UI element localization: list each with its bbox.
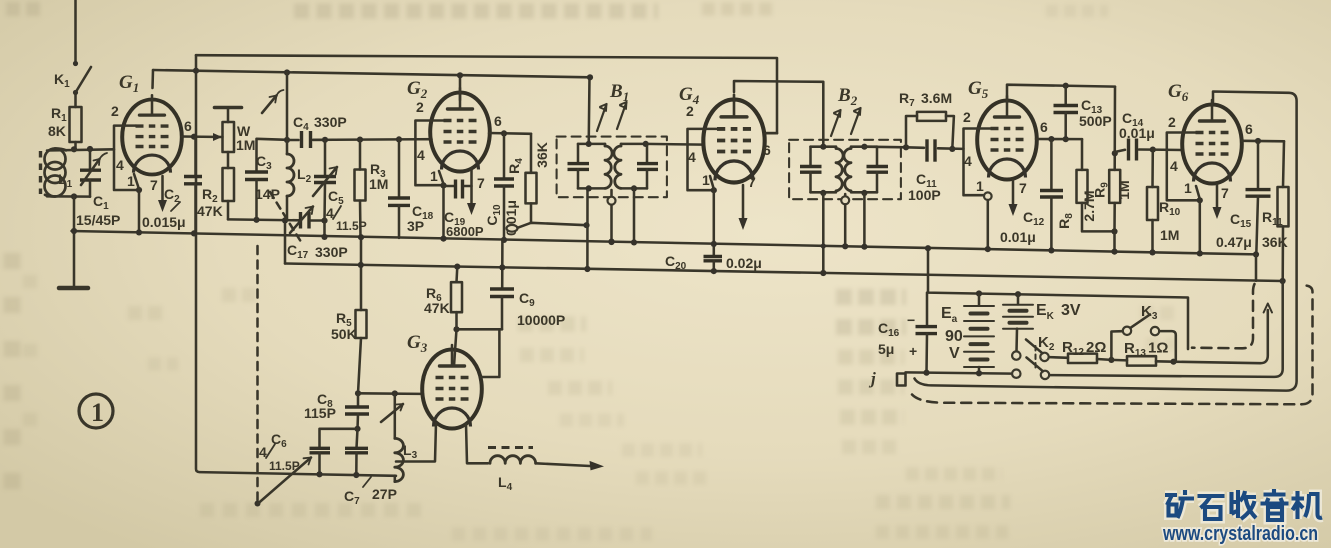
capacitor C8 — [304, 391, 369, 432]
capacitor C2 — [142, 137, 202, 236]
svg-text:www.crystalradio.cn: www.crystalradio.cn — [1162, 523, 1318, 545]
capacitor C19 — [444, 180, 484, 240]
svg-text:6800P: 6800P — [446, 224, 484, 239]
G1 pin 4 bracket — [111, 103, 139, 190]
capacitor C16 — [878, 293, 937, 373]
node L1 top — [47, 146, 114, 152]
B1 terminal to bus left — [608, 190, 616, 245]
bus junction dots — [608, 239, 614, 245]
transformer B1 box — [557, 81, 667, 197]
potentiometer W — [215, 108, 256, 154]
G4 pin 7 arrow — [739, 174, 757, 230]
tube G5 — [977, 96, 1037, 180]
G6 pin 7 arrow — [1213, 185, 1230, 219]
svg-text:115P: 115P — [304, 405, 336, 421]
top bus — [196, 55, 777, 133]
tube G1 — [122, 95, 182, 174]
capacitor C14 — [1115, 110, 1155, 161]
ground drop wire — [71, 197, 77, 287]
battery plus lead arrow — [1174, 304, 1273, 364]
svg-text:15/45P: 15/45P — [76, 212, 120, 228]
capacitor C6 — [258, 429, 358, 504]
G4 anode wire — [734, 81, 823, 147]
svg-text:50K: 50K — [331, 326, 357, 342]
G2 pin bracket — [415, 99, 444, 185]
R4 bottom wire — [507, 222, 590, 232]
G6 pin 1 node — [1196, 186, 1203, 257]
G2 anode lead — [457, 72, 463, 100]
B2 primary drop to AVC — [820, 193, 826, 276]
svg-text:1: 1 — [91, 398, 104, 427]
inductor L1 — [41, 149, 73, 197]
B1 secondary out wire — [646, 143, 704, 146]
B1 secondary tank — [614, 141, 658, 192]
G3 heater out wire — [466, 424, 488, 463]
B1 drop to AVC — [584, 188, 590, 272]
G5 pin 1 node — [984, 192, 992, 252]
tube G4 — [703, 95, 764, 183]
G1 pin 7 arrow — [150, 176, 167, 212]
B2 terminal to bus — [841, 194, 849, 249]
svg-text:11.5P: 11.5P — [336, 219, 367, 233]
watermark site name — [1165, 489, 1322, 520]
svg-text:330P: 330P — [315, 244, 348, 260]
svg-text:47K: 47K — [197, 203, 223, 219]
capacitor C3 — [245, 139, 287, 220]
svg-text:1M: 1M — [1160, 227, 1179, 243]
svg-text:6: 6 — [1040, 119, 1048, 135]
switch K1 — [54, 61, 91, 95]
svg-text:90: 90 — [945, 328, 963, 345]
filament return wire — [1049, 281, 1282, 377]
svg-text:7: 7 — [150, 177, 158, 193]
svg-text:1M: 1M — [1116, 180, 1132, 199]
svg-text:0.01μ: 0.01μ — [1000, 229, 1036, 245]
G6 pin bracket — [1167, 114, 1200, 200]
earphone cord dashed inner — [1192, 284, 1255, 348]
resistor R6 — [424, 264, 462, 330]
resistor R12 — [1049, 339, 1115, 363]
G3 grid 2 out — [481, 329, 499, 377]
ground — [59, 286, 88, 291]
inductor L4 — [488, 448, 536, 494]
resistor R9 — [1092, 87, 1133, 255]
filament wire — [906, 370, 1013, 377]
svg-text:2: 2 — [416, 99, 424, 115]
G2 pin 6 wire — [489, 113, 531, 136]
svg-text:6: 6 — [763, 142, 771, 158]
svg-text:14P: 14P — [255, 186, 280, 202]
resistor R1 — [48, 95, 82, 149]
svg-text:1M: 1M — [236, 137, 255, 153]
G5 pin 6 wire — [1036, 119, 1082, 142]
svg-text:2: 2 — [963, 109, 971, 125]
battery EK 3V — [1003, 294, 1081, 351]
capacitor C15 — [1216, 141, 1271, 258]
capacitor C7 — [344, 429, 397, 507]
svg-text:1: 1 — [430, 168, 438, 184]
svg-text:−: − — [907, 312, 915, 328]
svg-text:5μ: 5μ — [878, 341, 894, 357]
svg-text:100P: 100P — [908, 187, 941, 203]
svg-text:27P: 27P — [372, 486, 397, 502]
G5 pin 7 arrow — [1009, 180, 1028, 216]
tube G2 — [430, 88, 490, 172]
resistor R10 — [1147, 150, 1181, 256]
G3 cathode tap wire — [396, 423, 436, 462]
grid return wire — [228, 217, 299, 224]
capacitor C13 — [1054, 86, 1112, 143]
L1 bottom wire — [47, 193, 90, 199]
svg-text:3P: 3P — [407, 218, 424, 234]
resistor R11 — [1262, 141, 1289, 284]
svg-text:0.015μ: 0.015μ — [142, 214, 186, 230]
svg-text:1: 1 — [702, 172, 710, 188]
svg-text:0.02μ: 0.02μ — [726, 255, 762, 271]
circled figure number 1 — [79, 394, 113, 428]
C17 drop to bus — [321, 221, 327, 240]
earphone cord dashed outer — [912, 286, 1313, 405]
B2 primary tank — [800, 144, 843, 196]
svg-text:4: 4 — [116, 157, 124, 173]
svg-text:1M: 1M — [369, 176, 388, 192]
svg-text:1: 1 — [976, 178, 984, 194]
svg-text:3V: 3V — [1061, 302, 1081, 319]
capacitor C18 — [388, 139, 434, 238]
B2 trimmer arrows — [831, 108, 861, 136]
G2 pin 7 arrow — [467, 168, 485, 215]
svg-text:7: 7 — [477, 175, 485, 191]
resistor R8 — [1056, 139, 1118, 234]
svg-text:4: 4 — [964, 153, 972, 169]
svg-text:0.47μ: 0.47μ — [1216, 234, 1252, 250]
main ground bus — [72, 231, 1257, 254]
switch K2 — [1012, 334, 1055, 379]
svg-text:+: + — [909, 343, 917, 359]
svg-text:0.01μ: 0.01μ — [1119, 125, 1155, 141]
svg-text:500P: 500P — [1079, 113, 1112, 129]
tube G3 — [422, 345, 482, 429]
switch K3 bypass — [1111, 303, 1175, 362]
svg-text:7: 7 — [1019, 180, 1027, 196]
inductor L3 — [381, 394, 418, 482]
svg-text:4: 4 — [688, 149, 696, 165]
transformer B2 box — [789, 85, 901, 199]
svg-text:4: 4 — [1170, 158, 1178, 174]
B1 primary tank — [568, 141, 613, 192]
svg-text:10000P: 10000P — [517, 312, 565, 328]
svg-text:2: 2 — [1168, 114, 1176, 130]
G4 pin 6 wire — [763, 133, 777, 158]
B1 secondary drop to bus — [631, 188, 637, 245]
antenna wire — [74, 0, 77, 61]
svg-text:6: 6 — [184, 118, 192, 134]
G1 pin 6 wire — [182, 118, 223, 141]
capacitor C1 — [76, 146, 120, 228]
capacitor C10 — [484, 133, 519, 243]
svg-text:36K: 36K — [1262, 234, 1288, 250]
svg-text:V: V — [949, 345, 960, 362]
B2 secondary tank — [844, 144, 888, 196]
gang dashed link — [255, 90, 304, 507]
left rail wire — [196, 55, 396, 476]
G6 grid wire — [1150, 147, 1182, 153]
resistor R4 — [506, 134, 550, 223]
node C4/L2 — [284, 69, 290, 143]
svg-text:4: 4 — [417, 147, 425, 163]
B2 secondary drop to bus — [861, 193, 867, 250]
tube G6 — [1182, 100, 1242, 184]
svg-text:1Ω: 1Ω — [1148, 340, 1168, 357]
G2 pin 1 node — [439, 171, 447, 242]
G5 pin bracket — [963, 109, 991, 195]
G1 anode junction — [153, 68, 200, 88]
AVC line C20 net — [285, 220, 1283, 281]
resistor R5 — [331, 234, 367, 393]
G6 anode wire — [915, 92, 1297, 391]
svg-text:2: 2 — [686, 103, 694, 119]
svg-text:330P: 330P — [314, 114, 347, 130]
resistor R13 — [1111, 340, 1176, 366]
svg-text:2Ω: 2Ω — [1086, 339, 1106, 356]
svg-text:6: 6 — [1245, 121, 1253, 137]
svg-text:3.6M: 3.6M — [921, 90, 952, 106]
battery top wire — [925, 245, 1188, 349]
G3 grid wire — [355, 390, 423, 396]
bus end drop — [1255, 254, 1258, 280]
grid wire to G2 — [313, 136, 432, 143]
svg-text:7: 7 — [748, 174, 756, 190]
svg-text:11.5P: 11.5P — [269, 459, 300, 473]
B1 feed from anode bus — [587, 74, 593, 144]
svg-text:8K: 8K — [48, 123, 66, 139]
svg-text:7: 7 — [1221, 185, 1229, 201]
battery Ea 90V — [941, 294, 994, 374]
resistor R2 — [197, 152, 234, 219]
svg-text:1: 1 — [1184, 180, 1192, 196]
capacitor C20 — [665, 244, 762, 274]
svg-text:36K: 36K — [534, 142, 550, 168]
G4 pin bracket — [686, 103, 717, 190]
G3 anode node — [453, 326, 502, 366]
anode bus wire — [153, 70, 590, 77]
resistor R3 — [355, 140, 389, 238]
G6 pin 6 wire — [1242, 121, 1284, 144]
capacitor C5 — [313, 140, 367, 233]
earphone jack j — [868, 369, 906, 388]
capacitor C12 — [1000, 139, 1063, 253]
capacitor C17 — [287, 207, 348, 262]
capacitor C11 — [906, 139, 964, 203]
B1 trimmer arrows — [597, 102, 627, 131]
svg-text:2: 2 — [111, 103, 119, 119]
G1 pin 1 node — [134, 174, 142, 235]
inductor L2 — [287, 140, 312, 220]
output arrow — [536, 461, 604, 471]
capacitor C9 — [490, 240, 565, 329]
svg-text:6: 6 — [494, 113, 502, 129]
resistor R7 — [899, 90, 955, 152]
G4 pin 1 node — [710, 176, 717, 247]
svg-text:47K: 47K — [424, 300, 450, 316]
B2 secondary out wire — [864, 144, 909, 150]
capacitor C4 — [287, 114, 347, 148]
G5 anode wire — [1007, 83, 1115, 100]
